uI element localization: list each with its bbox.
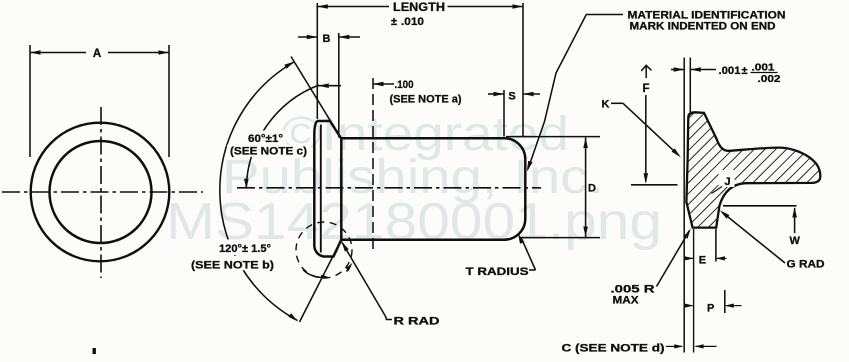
svg-text:J: J — [725, 176, 731, 188]
svg-text:LENGTH: LENGTH — [393, 0, 445, 14]
svg-text:E: E — [699, 255, 706, 267]
svg-text:MAX: MAX — [613, 295, 640, 307]
svg-text:C (SEE NOTE d): C (SEE NOTE d) — [562, 343, 665, 355]
svg-text:W: W — [790, 235, 801, 247]
svg-text:MARK INDENTED ON END: MARK INDENTED ON END — [630, 21, 776, 33]
svg-text:.001: .001 — [752, 62, 775, 74]
svg-text:G RAD: G RAD — [787, 259, 825, 271]
svg-text:±: ± — [742, 65, 748, 77]
svg-text:60°±1°: 60°±1° — [248, 133, 283, 145]
svg-text:F: F — [643, 83, 650, 95]
svg-text:A: A — [93, 48, 101, 60]
svg-text:.002: .002 — [758, 73, 781, 85]
svg-text:R RAD: R RAD — [394, 316, 440, 328]
svg-text:±: ± — [391, 16, 397, 28]
svg-text:.001: .001 — [719, 65, 741, 77]
svg-text:K: K — [602, 99, 610, 111]
svg-text:.010: .010 — [401, 16, 424, 28]
svg-text:120°± 1.5°: 120°± 1.5° — [219, 243, 271, 255]
svg-text:P: P — [707, 303, 714, 315]
svg-text:S: S — [508, 91, 515, 103]
svg-text:.100: .100 — [395, 79, 414, 91]
svg-text:(SEE NOTE c): (SEE NOTE c) — [230, 146, 307, 158]
svg-text:(SEE NOTE a): (SEE NOTE a) — [390, 94, 462, 106]
svg-text:D: D — [588, 183, 596, 195]
svg-text:(SEE NOTE b): (SEE NOTE b) — [191, 260, 274, 272]
svg-text:B: B — [323, 33, 331, 45]
svg-text:T RADIUS: T RADIUS — [466, 266, 529, 278]
